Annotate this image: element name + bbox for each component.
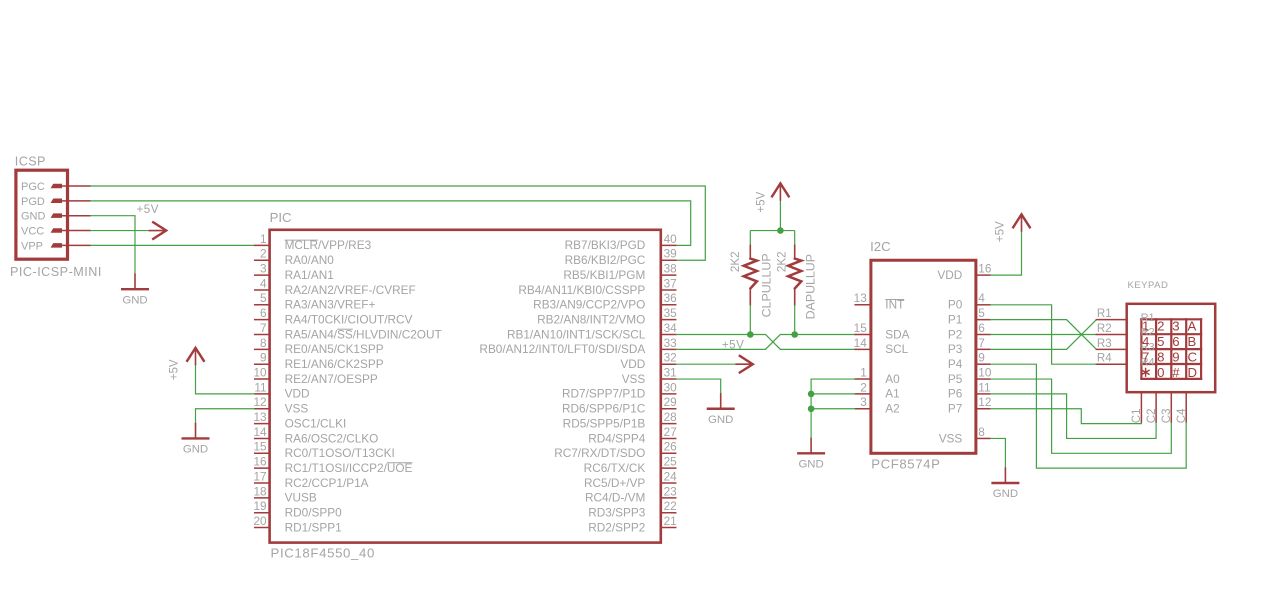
svg-text:VUSB: VUSB: [285, 491, 317, 505]
svg-text:RD0/SPP0: RD0/SPP0: [285, 506, 342, 520]
IC U1 pin 17 RC2/CCP1/P1A: [253, 469, 368, 489]
svg-text:RB7/BKI3/PGD: RB7/BKI3/PGD: [565, 238, 646, 252]
svg-text:20: 20: [253, 514, 267, 528]
wire net ROW3 (P1 to keypad R3, crossing): [990, 320, 1096, 350]
svg-text:3: 3: [1172, 319, 1179, 334]
IC U1 pin 19 RD0/SPP0: [253, 499, 342, 519]
svg-text:RC0/T1OSO/T13CKI: RC0/T1OSO/T13CKI: [285, 446, 395, 460]
junction A1/GND: [808, 391, 815, 398]
IC U1 pin 36 RB3/AN9/CCP2/VPO: [533, 291, 677, 311]
svg-text:RE1/AN6/CK2SPP: RE1/AN6/CK2SPP: [285, 357, 384, 371]
IC U2 pin 9 P4: [948, 351, 990, 371]
wire net SCL (PIC pin34 to PCF SCL, crossing down): [676, 335, 856, 350]
svg-text:GND: GND: [122, 294, 147, 306]
svg-text:1: 1: [1142, 319, 1149, 334]
svg-text:RB6/KBI2/PGC: RB6/KBI2/PGC: [565, 253, 646, 267]
connector J1 pin VPP: [21, 240, 90, 252]
connector J1 pin PGC: [21, 181, 90, 193]
svg-text:PGD: PGD: [21, 196, 45, 208]
IC U2 pin 5 P1: [948, 306, 990, 326]
wire R1 bottom to SCL net: [749, 305, 751, 335]
wire net +5V stem to resistors: [779, 201, 781, 231]
svg-text:33: 33: [664, 336, 678, 350]
svg-text:34: 34: [664, 321, 678, 335]
svg-text:#: #: [1172, 365, 1180, 380]
svg-text:31: 31: [664, 365, 677, 379]
svg-text:6: 6: [1172, 334, 1179, 349]
wire net +5V from PIC pin32 VDD: [676, 363, 738, 365]
IC U1 pin 37 RB4/AN11/KBI0/CSSPP: [518, 276, 676, 296]
wire net +5V joining resistor tops: [750, 230, 794, 232]
resistor R1 CLPULLUP 2K2: [729, 245, 773, 317]
keypad pin R3: [1096, 338, 1126, 350]
svg-text:27: 27: [664, 425, 677, 439]
svg-text:+5V: +5V: [137, 203, 159, 216]
wire net PGD (ICSP PGD to PIC pin40): [90, 201, 691, 246]
connector J1 pin PGD: [21, 196, 90, 208]
wire net ROW1 (P3 to keypad R1, crossing): [990, 320, 1096, 350]
IC U1 pin 2 RA0/AN0: [255, 247, 335, 267]
svg-text:P7: P7: [948, 402, 962, 416]
wire R2 top lead join: [794, 231, 796, 246]
IC U1 pin 31 VSS: [622, 365, 677, 385]
wire net GND from PIC pin31 VSS: [676, 379, 721, 394]
wire net GND from PCF VSS pin8: [990, 438, 1005, 468]
svg-text:25: 25: [664, 455, 678, 469]
svg-text:RD5/SPP5/P1B: RD5/SPP5/P1B: [563, 416, 646, 430]
keypad key matrix grid: [1141, 319, 1201, 379]
IC U1 pin 38 RB5/KBI1/PGM: [563, 262, 677, 282]
svg-text:VDD: VDD: [937, 268, 962, 282]
svg-text:21: 21: [664, 514, 677, 528]
svg-text:GND: GND: [798, 459, 823, 471]
IC U2 pin 11 P6: [948, 380, 991, 400]
IC U2 pin 15 SDA: [854, 321, 910, 341]
svg-text:37: 37: [664, 276, 677, 290]
svg-text:30: 30: [664, 380, 678, 394]
+5V supply symbol above pullup resistors: [754, 183, 788, 212]
svg-text:3: 3: [860, 395, 867, 409]
svg-text:RA0/AN0: RA0/AN0: [285, 253, 335, 267]
IC U1 pin 27 RD4/SPP4: [588, 425, 676, 445]
svg-text:16: 16: [253, 455, 267, 469]
svg-text:18: 18: [253, 484, 267, 498]
ground symbol at ICSP: [122, 274, 148, 306]
svg-text:39: 39: [664, 247, 677, 261]
IC U2 pin 14 SCL: [854, 336, 909, 356]
svg-text:PIC: PIC: [270, 210, 292, 225]
IC U2 pin 13 INT: [854, 291, 905, 311]
svg-text:C4: C4: [1176, 408, 1188, 423]
svg-text:P1: P1: [948, 312, 962, 326]
IC U1 pin 40 RB7/BKI3/PGD: [565, 232, 678, 252]
svg-text:RC6/TX/CK: RC6/TX/CK: [584, 461, 646, 475]
wire net GND from ICSP GND down: [90, 216, 135, 275]
keypad pin C1: [1131, 392, 1143, 423]
svg-text:GND: GND: [993, 488, 1018, 500]
svg-text:GND: GND: [21, 211, 46, 223]
svg-text:10: 10: [253, 365, 267, 379]
IC U1 pin 33 RB0/AN12/INT0/LFT0/SDI/SDA: [479, 336, 677, 356]
svg-text:R2: R2: [1097, 323, 1112, 335]
ground symbol at PCF A0-A2: [798, 438, 824, 470]
+5V supply symbol at PCF VDD: [993, 214, 1030, 242]
svg-text:DAPULLUP: DAPULLUP: [803, 254, 817, 319]
IC U1 pin 4 RA2/AN2/VREF-/CVREF: [255, 276, 416, 296]
svg-text:RA3/AN3/VREF+: RA3/AN3/VREF+: [285, 298, 376, 312]
svg-text:2K2: 2K2: [775, 251, 788, 272]
keypad pin C3: [1161, 392, 1173, 423]
svg-text:10: 10: [978, 365, 992, 379]
IC U2 pin 6 P2: [948, 321, 990, 341]
svg-text:24: 24: [664, 469, 678, 483]
resistor R2 DAPULLUP 2K2: [775, 245, 817, 319]
svg-text:RE0/AN5/CK1SPP: RE0/AN5/CK1SPP: [285, 342, 384, 356]
svg-text:5: 5: [260, 291, 267, 305]
IC U2 I2C label: [870, 239, 891, 254]
svg-text:16: 16: [978, 262, 992, 276]
IC U1 pin 29 RD6/SPP6/P1C: [562, 395, 677, 415]
IC U1 pin 22 RD3/SPP3: [588, 499, 676, 519]
IC U2 pin 12 P7: [948, 395, 992, 415]
svg-text:A2: A2: [885, 402, 899, 416]
svg-text:5: 5: [978, 306, 985, 320]
svg-text:OSC1/CLKI: OSC1/CLKI: [285, 416, 347, 430]
svg-text:I2C: I2C: [870, 239, 891, 254]
connector J1 value PIC-ICSP-MINI: [10, 265, 102, 279]
svg-text:VDD: VDD: [285, 387, 310, 401]
svg-text:R3: R3: [1097, 338, 1112, 350]
IC U1 pin 15 RC0/T1OSO/T13CKI: [253, 440, 394, 460]
svg-text:0: 0: [1157, 365, 1164, 380]
keypad pin C2: [1146, 392, 1158, 423]
svg-text:6: 6: [260, 306, 267, 320]
svg-text:PIC-ICSP-MINI: PIC-ICSP-MINI: [10, 265, 102, 279]
svg-text:P6: P6: [948, 387, 963, 401]
IC U1 pin 11 VDD: [254, 380, 309, 400]
IC U2 pin 1 A0: [855, 365, 900, 385]
svg-text:4: 4: [1142, 334, 1149, 349]
svg-text:RA6/OSC2/CLKO: RA6/OSC2/CLKO: [285, 431, 379, 445]
wire net COL3 (P5 to keypad C3): [990, 379, 1171, 453]
wire R1 top lead join: [749, 231, 751, 246]
svg-text:RC1/T1OSI/ICCP2/UOE: RC1/T1OSI/ICCP2/UOE: [285, 461, 413, 475]
connector J1 PIC-ICSP-MINI body: [16, 170, 68, 259]
wire net PGC (ICSP PGC to PIC pin39): [90, 186, 705, 260]
svg-text:23: 23: [664, 484, 678, 498]
svg-text:P4: P4: [948, 357, 963, 371]
keypad pin R1: [1096, 308, 1126, 320]
IC U1 pin 3 RA1/AN1: [255, 262, 334, 282]
wire net GND from PCF A0: [811, 379, 855, 438]
svg-text:28: 28: [664, 410, 678, 424]
svg-text:15: 15: [854, 321, 868, 335]
IC U1 pin 30 RD7/SPP7/P1D: [562, 380, 677, 400]
wire net +5V from PIC pin11 VDD: [196, 364, 255, 394]
IC U1 pin 21 RD2/SPP2: [588, 514, 676, 534]
wire net VPP (ICSP VPP to PIC pin1): [90, 244, 255, 246]
svg-text:D: D: [1188, 365, 1198, 380]
svg-text:22: 22: [664, 499, 677, 513]
IC U1 pin 34 RB1/AN10/INT1/SCK/SCL: [507, 321, 677, 341]
svg-text:A0: A0: [885, 372, 900, 386]
IC U1 PIC18F4550 body: [270, 230, 661, 543]
svg-text:RD6/SPP6/P1C: RD6/SPP6/P1C: [562, 402, 646, 416]
IC U1 pin 6 RA4/T0CKI/CIOUT/RCV: [255, 306, 413, 326]
keypad pin C4: [1176, 392, 1188, 423]
svg-text:RB2/AN8/INT2/VMO: RB2/AN8/INT2/VMO: [537, 312, 645, 326]
IC U2 pin 3 A2: [855, 395, 900, 415]
ground symbol at PCF VSS: [993, 468, 1019, 500]
svg-text:RB1/AN10/INT1/SCK/SCL: RB1/AN10/INT1/SCK/SCL: [507, 327, 646, 341]
svg-text:7: 7: [260, 321, 267, 335]
svg-text:1: 1: [860, 365, 867, 379]
svg-text:RC4/D-/VM: RC4/D-/VM: [585, 491, 645, 505]
IC U2 value PCF8574P: [871, 457, 940, 472]
svg-text:SCL: SCL: [885, 342, 908, 356]
svg-text:C: C: [1188, 350, 1198, 365]
IC U1 pin 12 VSS: [253, 395, 308, 415]
svg-text:RD2/SPP2: RD2/SPP2: [588, 520, 645, 534]
IC U1 pin 39 RB6/KBI2/PGC: [565, 247, 677, 267]
IC U2 pin 2 A1: [855, 380, 900, 400]
svg-text:P3: P3: [948, 342, 963, 356]
IC U1 pin 16 ('RC1/T1OSI/ICCP2/', 'UOE', ''): [253, 455, 412, 475]
IC U1 pin 28 RD5/SPP5/P1B: [563, 410, 677, 430]
svg-text:C1: C1: [1131, 408, 1143, 423]
IC U2 pin 16 VDD: [937, 262, 991, 282]
wire net COL4 (P4 to keypad C4): [990, 364, 1186, 468]
svg-text:7: 7: [1142, 350, 1149, 365]
keypad internal pin names R1-R4: [1141, 312, 1155, 369]
wire net GND from PCF A1: [811, 393, 855, 395]
svg-text:4: 4: [260, 276, 267, 290]
svg-text:RC2/CCP1/P1A: RC2/CCP1/P1A: [285, 476, 369, 490]
svg-text:4: 4: [978, 291, 985, 305]
IC U2 PCF8574P body: [871, 260, 976, 453]
svg-text:7: 7: [978, 336, 985, 350]
wire net SDA (PIC pin33 to PCF SDA, crossing up): [676, 335, 856, 350]
svg-text:RE2/AN7/OESPP: RE2/AN7/OESPP: [285, 372, 378, 386]
svg-text:9: 9: [260, 351, 267, 365]
junction R2/SDA: [791, 331, 798, 338]
svg-text:2: 2: [260, 247, 267, 261]
svg-text:11: 11: [978, 380, 990, 394]
svg-text:6: 6: [978, 321, 985, 335]
wire net COL1 (P7 to keypad C1): [990, 409, 1141, 424]
svg-text:13: 13: [253, 410, 267, 424]
svg-text:8: 8: [978, 425, 985, 439]
svg-text:RA1/AN1: RA1/AN1: [285, 268, 334, 282]
svg-text:A1: A1: [885, 387, 899, 401]
svg-text:11: 11: [254, 380, 266, 394]
svg-text:40: 40: [664, 232, 678, 246]
svg-text:8: 8: [1157, 350, 1164, 365]
svg-text:B: B: [1188, 334, 1197, 349]
svg-text:38: 38: [664, 262, 678, 276]
svg-text:RB5/KBI1/PGM: RB5/KBI1/PGM: [563, 268, 645, 282]
svg-text:3: 3: [260, 262, 267, 276]
svg-text:VPP: VPP: [21, 240, 43, 252]
connector J1 pin VCC: [21, 225, 90, 237]
IC U1 pin 20 RD1/SPP1: [253, 514, 341, 534]
svg-text:VSS: VSS: [939, 431, 963, 445]
svg-text:PGC: PGC: [21, 181, 45, 193]
svg-text:RC7/RX/DT/SDO: RC7/RX/DT/SDO: [554, 446, 645, 460]
svg-text:36: 36: [664, 291, 678, 305]
svg-text:13: 13: [854, 291, 868, 305]
svg-text:C2: C2: [1146, 408, 1158, 423]
keypad pin R4: [1096, 353, 1126, 365]
svg-text:R1: R1: [1097, 308, 1112, 320]
svg-text:2: 2: [860, 380, 867, 394]
IC U2 pin 8 VSS: [939, 425, 990, 445]
svg-text:VDD: VDD: [620, 357, 645, 371]
svg-text:15: 15: [253, 440, 267, 454]
svg-text:32: 32: [664, 351, 677, 365]
svg-text:P2: P2: [948, 327, 962, 341]
IC U2 pin 10 P5: [948, 365, 992, 385]
svg-text:12: 12: [253, 395, 266, 409]
wire R2 bottom to SDA net: [794, 305, 796, 335]
svg-text:P5: P5: [948, 372, 963, 386]
svg-text:+5V: +5V: [168, 359, 181, 380]
svg-text:C3: C3: [1161, 408, 1173, 423]
+5V supply symbol at PIC VDD pin11: [168, 348, 204, 381]
svg-text:RA5/AN4/SS/HLVDIN/C2OUT: RA5/AN4/SS/HLVDIN/C2OUT: [285, 327, 442, 341]
svg-text:RA2/AN2/VREF-/CVREF: RA2/AN2/VREF-/CVREF: [285, 283, 416, 297]
keypad S1 body: [1127, 304, 1216, 392]
svg-text:RD4/SPP4: RD4/SPP4: [588, 431, 645, 445]
wire net +5V from ICSP VCC: [90, 230, 151, 232]
svg-text:RD1/SPP1: RD1/SPP1: [285, 520, 342, 534]
svg-text:GND: GND: [183, 444, 208, 456]
wire net ROW4 (P0 to keypad R4): [990, 305, 1096, 364]
IC U1 pin 23 RC4/D-/VM: [585, 484, 677, 504]
connector J1 pin GND: [21, 211, 90, 223]
svg-text:R4: R4: [1097, 353, 1112, 365]
keypad key labels 1-9 A-D * 0 #: [1142, 319, 1198, 381]
svg-text:+5V: +5V: [754, 191, 767, 212]
junction R1/SCL: [747, 331, 754, 338]
svg-text:MCLR/VPP/RE3: MCLR/VPP/RE3: [285, 238, 372, 252]
svg-text:CLPULLUP: CLPULLUP: [759, 253, 773, 317]
svg-text:RC5/D+/VP: RC5/D+/VP: [584, 476, 645, 490]
IC U1 pin 1 /VPP/RE3: [255, 232, 372, 252]
svg-text:19: 19: [253, 499, 266, 513]
wire net +5V from PCF VDD pin16: [990, 231, 1022, 275]
svg-text:29: 29: [664, 395, 677, 409]
IC U1 pin 25 RC6/TX/CK: [584, 455, 677, 475]
svg-text:RD7/SPP7/P1D: RD7/SPP7/P1D: [562, 387, 645, 401]
IC U1 pin 13 OSC1/CLKI: [253, 410, 346, 430]
svg-text:17: 17: [253, 469, 266, 483]
svg-text:9: 9: [1172, 350, 1179, 365]
ground symbol at PIC VSS pin12: [183, 424, 209, 456]
IC U1 pin 14 RA6/OSC2/CLKO: [253, 425, 378, 445]
svg-text:VSS: VSS: [285, 402, 309, 416]
svg-text:RB0/AN12/INT0/LFT0/SDI/SDA: RB0/AN12/INT0/LFT0/SDI/SDA: [479, 342, 645, 356]
junction +5V above resistors: [777, 227, 784, 234]
svg-text:35: 35: [664, 306, 678, 320]
+5V supply symbol at ICSP VCC: [137, 203, 167, 239]
IC U1 pin 26 RC7/RX/DT/SDO: [554, 440, 677, 460]
IC U1 pin 32 VDD: [620, 351, 676, 371]
svg-text:2: 2: [1157, 319, 1164, 334]
keypad S1 KEYPAD label: [1128, 280, 1169, 291]
+5V supply symbol at PIC VDD pin32: [722, 338, 753, 372]
wire net ROW2 (P2 to keypad R2): [990, 334, 1096, 336]
svg-text:KEYPAD: KEYPAD: [1128, 280, 1169, 291]
IC U1 pin 5 RA3/AN3/VREF+: [255, 291, 376, 311]
svg-text:GND: GND: [708, 414, 733, 426]
IC U1 pin 9 RE1/AN6/CK2SPP: [255, 351, 384, 371]
connector J1 ICSP label: [15, 154, 46, 168]
svg-text:RD3/SPP3: RD3/SPP3: [588, 506, 645, 520]
svg-text:+5V: +5V: [993, 221, 1006, 242]
IC U1 value PIC18F4550_40: [271, 546, 376, 561]
svg-text:SDA: SDA: [885, 327, 909, 341]
svg-text:PIC18F4550_40: PIC18F4550_40: [271, 546, 376, 561]
svg-text:INT: INT: [885, 298, 904, 312]
svg-text:1: 1: [260, 232, 267, 246]
svg-text:RB3/AN9/CCP2/VPO: RB3/AN9/CCP2/VPO: [533, 298, 645, 312]
svg-text:26: 26: [664, 440, 678, 454]
svg-text:5: 5: [1157, 334, 1164, 349]
IC U1 pin 7 ('RA5/AN4/', 'SS', '/HLVDIN/C2OUT'): [255, 321, 442, 341]
IC U2 pin 7 P3: [948, 336, 990, 356]
svg-text:9: 9: [978, 351, 985, 365]
svg-text:8: 8: [260, 336, 267, 350]
svg-text:VCC: VCC: [21, 225, 44, 237]
svg-text:RA4/T0CKI/CIOUT/RCV: RA4/T0CKI/CIOUT/RCV: [285, 312, 413, 326]
svg-text:RB4/AN11/KBI0/CSSPP: RB4/AN11/KBI0/CSSPP: [518, 283, 645, 297]
wire net GND from PCF A2: [811, 408, 855, 410]
svg-text:VSS: VSS: [622, 372, 646, 386]
ground symbol at PIC VSS pin31: [708, 394, 734, 426]
svg-text:ICSP: ICSP: [15, 154, 46, 168]
svg-text:A: A: [1188, 319, 1197, 334]
svg-text:PCF8574P: PCF8574P: [871, 457, 940, 472]
IC U1 pin 10 RE2/AN7/OESPP: [253, 365, 377, 385]
IC U1 pin 8 RE0/AN5/CK1SPP: [255, 336, 384, 356]
IC U1 pin 24 RC5/D+/VP: [584, 469, 677, 489]
svg-text:2K2: 2K2: [729, 251, 742, 272]
IC U2 pin 4 P0: [948, 291, 990, 311]
svg-text:14: 14: [854, 336, 868, 350]
svg-text:+5V: +5V: [722, 338, 744, 351]
wire net COL2 (P6 to keypad C2): [990, 394, 1156, 439]
IC U1 pin 35 RB2/AN8/INT2/VMO: [537, 306, 677, 326]
keypad pin R2: [1096, 323, 1126, 335]
junction A2/GND: [808, 405, 815, 412]
wire net GND from PIC pin12 VSS: [196, 409, 255, 424]
svg-text:14: 14: [253, 425, 267, 439]
IC U1 pin 18 VUSB: [253, 484, 316, 504]
svg-text:12: 12: [978, 395, 991, 409]
op IC U1 PIC label: [270, 210, 292, 225]
svg-text:P0: P0: [948, 298, 963, 312]
